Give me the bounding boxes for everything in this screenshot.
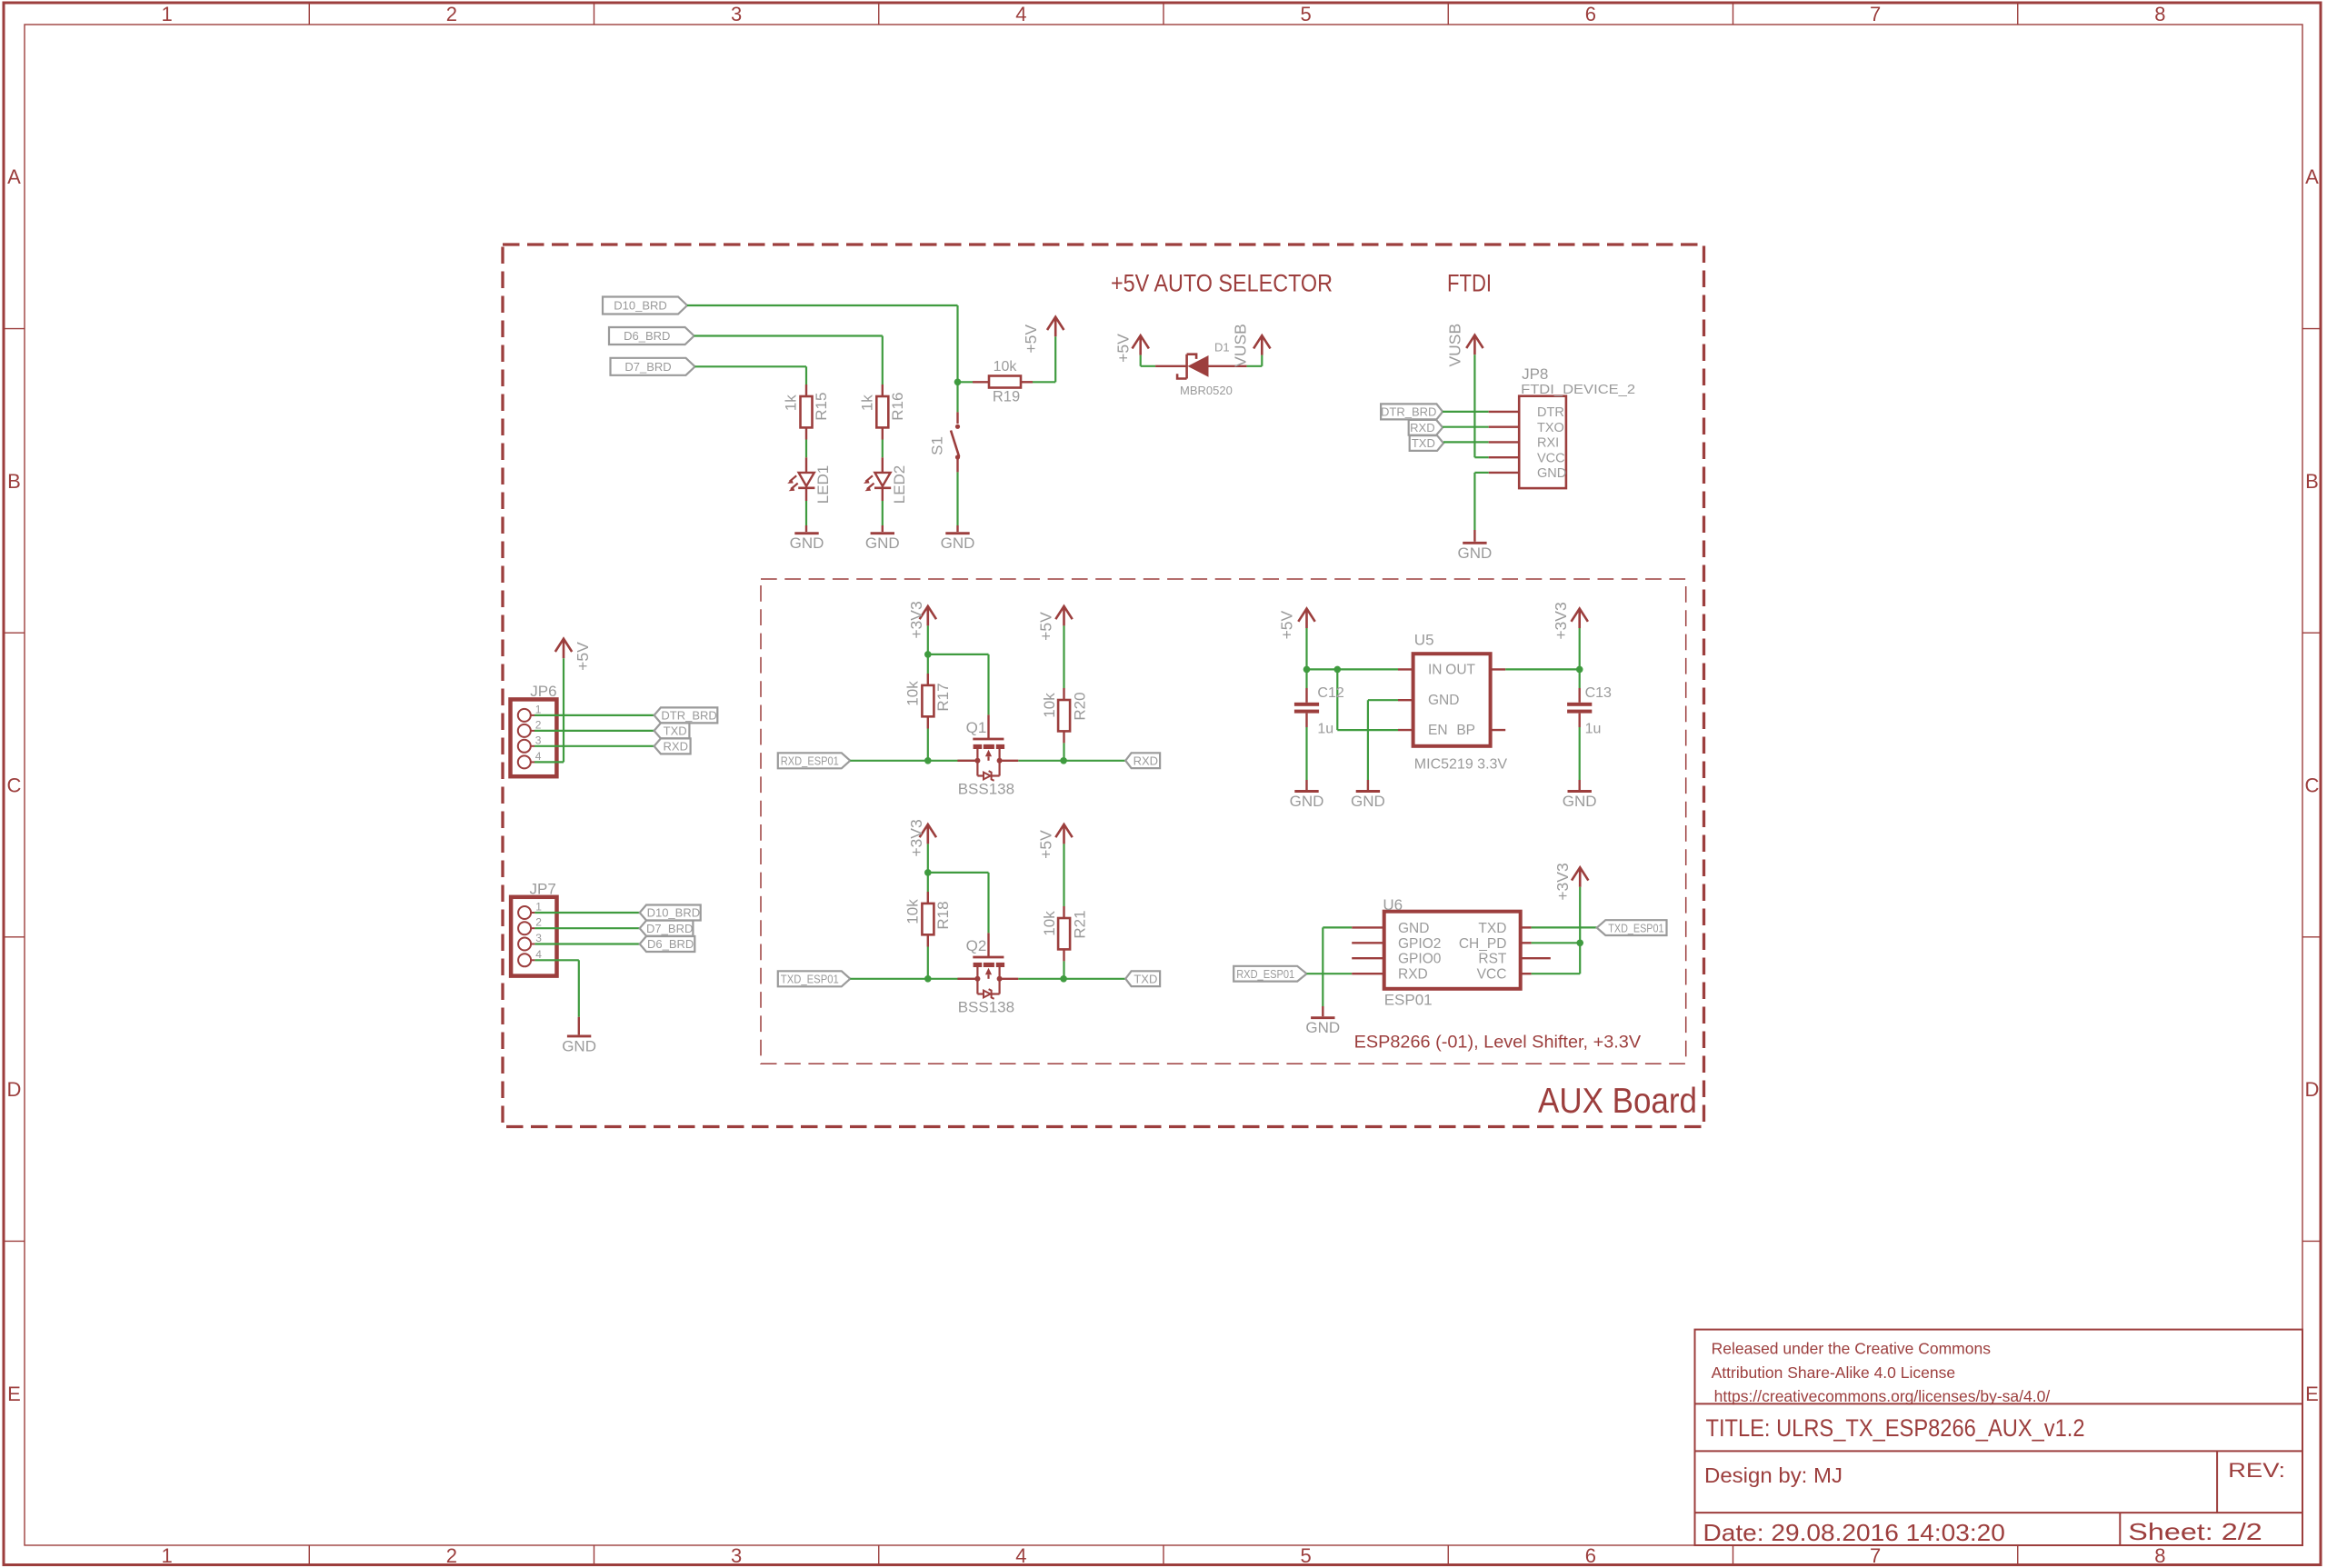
svg-text:RXD_ESP01: RXD_ESP01: [1236, 967, 1294, 981]
net flag DTR_BRD JP6: [654, 707, 718, 723]
svg-text:TXD_ESP01: TXD_ESP01: [1608, 921, 1663, 934]
svg-text:1k: 1k: [858, 394, 875, 411]
svg-text:ESP01: ESP01: [1384, 992, 1433, 1009]
svg-text:RST: RST: [1478, 952, 1507, 967]
wire OUT to +3V3/C13: [1505, 668, 1580, 670]
net flag DTR_BRD: [1381, 404, 1443, 419]
wire VUSB to JP8 VCC: [1473, 355, 1475, 457]
svg-text:VCC: VCC: [1537, 452, 1565, 466]
junction node R17/rail: [924, 757, 932, 764]
svg-text:1: 1: [161, 3, 172, 25]
junction node R18/rail: [924, 975, 932, 983]
svg-text:TXD: TXD: [1412, 436, 1435, 450]
resistor R19 10k: [958, 381, 974, 383]
svg-text:TITLE: ULRS_TX_ESP8266_AUX_v1.: TITLE: ULRS_TX_ESP8266_AUX_v1.2: [1706, 1414, 2085, 1442]
svg-text:C: C: [2305, 774, 2320, 797]
svg-text:S1: S1: [929, 436, 946, 455]
svg-text:A: A: [2305, 165, 2319, 188]
svg-text:1: 1: [161, 1544, 172, 1567]
svg-text:+3V3: +3V3: [1553, 863, 1572, 900]
svg-text:4: 4: [1015, 3, 1026, 25]
wire D6_BRD to R16: [694, 335, 883, 336]
svg-text:EN: EN: [1428, 723, 1448, 738]
svg-text:4: 4: [1015, 1544, 1026, 1567]
svg-text:MIC5219 3.3V: MIC5219 3.3V: [1414, 757, 1508, 773]
junction node C12/IN: [1303, 666, 1311, 674]
svg-text:2: 2: [446, 1544, 457, 1567]
wire D7_BRD to R15: [695, 365, 807, 367]
wire U6 GND to ground: [1323, 926, 1352, 928]
wire D10_BRD to S1 node: [687, 305, 958, 306]
wire LED1 to GND: [805, 501, 807, 525]
svg-text:2: 2: [535, 916, 542, 929]
net flag RXD FTDI: [1409, 420, 1443, 435]
svg-text:GND: GND: [865, 534, 900, 552]
title block outline: [1695, 1330, 2303, 1545]
net flag D10_BRD: [603, 297, 687, 315]
ground GND under C12: [1305, 780, 1307, 790]
svg-text:3: 3: [535, 734, 542, 746]
svg-text:GND: GND: [790, 534, 824, 552]
wire JP7 pin2 to D7_BRD: [534, 927, 639, 929]
svg-text:3: 3: [535, 932, 542, 944]
svg-text:10k: 10k: [1041, 911, 1058, 936]
AUX Board dashed outline: [503, 245, 1704, 1127]
wire S1 to GND: [956, 472, 958, 525]
net flag D6_BRD: [609, 327, 694, 345]
svg-text:2: 2: [535, 718, 542, 731]
svg-text:RXD: RXD: [1410, 421, 1434, 434]
svg-text:BSS138: BSS138: [958, 781, 1014, 798]
svg-text:8: 8: [2154, 3, 2165, 25]
resistor R15 1k: [805, 385, 807, 396]
svg-text:5: 5: [1300, 3, 1311, 25]
wire TXD_ESP01 rail: [850, 978, 977, 980]
junction node gate/R18: [924, 869, 932, 876]
svg-text:1: 1: [535, 901, 542, 914]
ESP8266 inner dashed outline: [761, 579, 1686, 1064]
wire rail to RXD: [1018, 760, 1126, 762]
frame column dividers top band: [308, 3, 310, 25]
svg-text:D10_BRD: D10_BRD: [647, 906, 701, 920]
svg-text:+5V: +5V: [1278, 610, 1296, 639]
svg-text:GND: GND: [1428, 693, 1459, 708]
resistor R21 10k: [1063, 844, 1064, 906]
svg-text:R20: R20: [1072, 692, 1089, 720]
svg-text:GND: GND: [941, 534, 975, 552]
svg-text:AUX Board: AUX Board: [1538, 1082, 1697, 1121]
svg-text:A: A: [7, 165, 21, 188]
svg-text:U5: U5: [1414, 632, 1434, 649]
net flag RXD JP6: [654, 738, 691, 754]
wire RXD_ESP01 to U6: [1307, 973, 1353, 974]
svg-text:DTR_BRD: DTR_BRD: [661, 709, 716, 723]
wire rail to TXD: [1018, 978, 1126, 980]
ground GND under JP8: [1473, 530, 1475, 542]
title block dividers: [1695, 1403, 2303, 1404]
resistor R20 10k: [1063, 625, 1064, 688]
svg-text:JP7: JP7: [530, 881, 556, 898]
wire R20 to rail: [1063, 743, 1064, 760]
svg-text:DTR_BRD: DTR_BRD: [1381, 405, 1436, 419]
svg-text:JP8: JP8: [1522, 365, 1548, 383]
svg-text:E: E: [2305, 1383, 2319, 1405]
svg-text:TXD: TXD: [1134, 972, 1157, 985]
svg-text:GND: GND: [1458, 544, 1493, 562]
frame row dividers left band: [4, 328, 25, 330]
net flag RXD: [1125, 753, 1160, 768]
junction node CH_PD/+3V3: [1576, 940, 1583, 947]
svg-text:4: 4: [535, 750, 542, 763]
svg-text:GPIO0: GPIO0: [1398, 952, 1442, 967]
svg-text:C13: C13: [1585, 685, 1612, 701]
junction node EN/IN: [1334, 666, 1342, 674]
svg-text:C: C: [7, 774, 22, 797]
ground GND under JP7: [578, 1017, 580, 1035]
svg-text:Design by: MJ: Design by: MJ: [1704, 1463, 1843, 1487]
wire +3V3 to R17 and gate: [927, 625, 929, 674]
svg-text:B: B: [2305, 470, 2319, 493]
svg-text:B: B: [7, 470, 21, 493]
svg-text:R17: R17: [934, 683, 952, 711]
svg-text:RXD_ESP01: RXD_ESP01: [781, 754, 839, 768]
wire JP7 pin1 to D10_BRD: [534, 912, 639, 914]
svg-text:REV:: REV:: [2228, 1459, 2285, 1482]
svg-text:Q1: Q1: [966, 719, 987, 736]
svg-text:4: 4: [535, 948, 542, 961]
wire +3V3 to CH_PD and VCC: [1579, 887, 1581, 974]
svg-text:GND: GND: [1563, 793, 1597, 810]
svg-text:TXD: TXD: [664, 724, 687, 738]
wire R15 to LED1: [805, 440, 807, 458]
svg-text:+5V: +5V: [574, 642, 592, 671]
IC U5 MIC5219 3.3V: [1398, 668, 1413, 670]
junction node gate/R17: [924, 651, 932, 658]
svg-text:RXD: RXD: [664, 740, 688, 754]
svg-text:+5V: +5V: [1022, 325, 1040, 354]
supply VUSB selector: [1261, 335, 1263, 355]
ground GND under S1: [956, 525, 958, 532]
svg-text:R21: R21: [1072, 910, 1089, 938]
svg-text:D10_BRD: D10_BRD: [614, 299, 667, 313]
svg-text:RXD: RXD: [1398, 967, 1428, 983]
net flag D7_BRD: [611, 358, 695, 375]
svg-text:D7_BRD: D7_BRD: [646, 922, 693, 935]
svg-text:GPIO2: GPIO2: [1398, 936, 1441, 952]
svg-text:BP: BP: [1456, 723, 1475, 738]
supply +5V selector: [1139, 335, 1142, 355]
svg-text:1k: 1k: [783, 394, 800, 411]
connector JP7: [511, 897, 556, 976]
svg-text:R16: R16: [889, 393, 906, 421]
net flag RXD_ESP01 U6: [1233, 966, 1306, 982]
net flag TXD_ESP01: [778, 971, 851, 986]
svg-text:E: E: [7, 1383, 21, 1405]
svg-text:+3V3: +3V3: [1552, 602, 1570, 639]
svg-text:3: 3: [731, 3, 742, 25]
wire R17 to main rail: [927, 729, 929, 761]
capacitor C12 1u: [1305, 669, 1307, 688]
supply +5V near R21: [1063, 824, 1065, 844]
wire JP6 pin3 to RXD: [534, 745, 654, 747]
svg-text:CH_PD: CH_PD: [1459, 936, 1507, 952]
frame row dividers right band: [2302, 328, 2321, 330]
junction node R21/rail: [1060, 975, 1067, 983]
supply VUSB FTDI: [1473, 335, 1476, 355]
svg-text:GND: GND: [562, 1037, 596, 1054]
svg-text:R19: R19: [993, 389, 1020, 405]
svg-text:IN: IN: [1428, 663, 1443, 678]
svg-text:8: 8: [2154, 1544, 2165, 1567]
svg-text:https://creativecommons.org/li: https://creativecommons.org/licenses/by-…: [1714, 1387, 2051, 1405]
wire +5V to D1: [1140, 355, 1142, 366]
wire R18 to main rail: [927, 947, 929, 979]
wire +5V to U5 IN: [1305, 628, 1307, 669]
supply +5V near U5: [1305, 609, 1308, 629]
connector JP6: [511, 699, 557, 776]
svg-text:GND: GND: [1398, 921, 1429, 936]
capacitor C13 1u: [1579, 669, 1581, 688]
net flag D6_BRD JP7: [640, 936, 695, 952]
svg-text:10k: 10k: [1041, 693, 1058, 718]
svg-text:D6_BRD: D6_BRD: [647, 937, 694, 951]
wire U5 GND to ground: [1368, 699, 1398, 701]
svg-text:GND: GND: [1537, 466, 1566, 481]
svg-text:D: D: [7, 1078, 22, 1101]
svg-text:10k: 10k: [904, 681, 921, 706]
svg-text:+5V: +5V: [1114, 334, 1133, 363]
wire DTR_BRD to JP8: [1443, 411, 1489, 413]
svg-text:3: 3: [731, 1544, 742, 1567]
svg-text:LED1: LED1: [814, 465, 832, 504]
svg-text:OUT: OUT: [1445, 663, 1475, 678]
wire LED2 to GND: [882, 501, 884, 525]
connector JP8 FTDI_DEVICE_2: [1489, 411, 1520, 413]
svg-text:D6_BRD: D6_BRD: [624, 329, 670, 343]
transistor Q1 BSS138: [987, 714, 989, 738]
svg-text:ESP8266 (-01), Level Shifter,: ESP8266 (-01), Level Shifter, +3.3V: [1354, 1033, 1642, 1053]
wire JP7 pin3 to D6_BRD: [534, 943, 639, 944]
svg-text:GND: GND: [1305, 1019, 1340, 1036]
svg-text:GND: GND: [1351, 793, 1385, 810]
svg-text:1: 1: [535, 703, 542, 715]
svg-text:2: 2: [446, 3, 457, 25]
net flag D10_BRD JP7: [640, 905, 701, 921]
svg-text:7: 7: [1870, 3, 1881, 25]
switch S1: [956, 382, 958, 412]
ground GND under LED2: [882, 525, 884, 532]
svg-text:Date: 29.08.2016 14:03:20: Date: 29.08.2016 14:03:20: [1703, 1519, 2005, 1546]
svg-text:U6: U6: [1383, 896, 1403, 914]
wire RXD to JP8: [1443, 426, 1489, 428]
supply +5V JP6: [563, 639, 565, 659]
svg-text:TXD_ESP01: TXD_ESP01: [781, 973, 839, 986]
frame column dividers bottom band: [308, 1545, 310, 1565]
svg-text:MBR0520: MBR0520: [1180, 384, 1233, 397]
ground GND under C13: [1578, 780, 1580, 790]
svg-text:+5V: +5V: [1037, 830, 1055, 859]
supply +5V near R19: [1054, 317, 1057, 337]
wire JP6 pin4 to +5V: [534, 761, 564, 763]
transistor Q2 BSS138: [987, 933, 989, 956]
svg-text:FTDI: FTDI: [1447, 270, 1492, 297]
svg-text:D: D: [2305, 1078, 2320, 1101]
ground GND under U5: [1367, 780, 1369, 790]
junction node OUT/C13: [1576, 666, 1583, 674]
supply +3V3 near C13: [1578, 609, 1581, 629]
wire TXD to JP8: [1443, 441, 1489, 443]
wire D1 to VUSB: [1247, 365, 1263, 367]
wire RXD_ESP01 rail: [850, 760, 977, 762]
svg-text:C12: C12: [1317, 685, 1343, 701]
svg-text:LED2: LED2: [891, 465, 908, 504]
svg-text:Released under the Creative Co: Released under the Creative Commons: [1712, 1340, 1992, 1358]
svg-text:GND: GND: [1290, 793, 1324, 810]
wire JP8 GND to ground: [1474, 472, 1488, 474]
net flag TXD_ESP01 U6: [1597, 920, 1667, 935]
svg-text:R15: R15: [813, 393, 830, 421]
wire C12 to GND: [1305, 727, 1307, 780]
wire CH_PD branch: [1532, 942, 1581, 944]
supply +3V3 near R17: [926, 606, 929, 626]
svg-text:VUSB: VUSB: [1445, 324, 1463, 367]
svg-text:6: 6: [1585, 3, 1596, 25]
supply +3V3 near U6: [1579, 867, 1582, 887]
ground GND under U6: [1322, 1006, 1323, 1016]
net flag TXD FTDI: [1410, 435, 1443, 451]
net flag TXD: [1125, 971, 1160, 986]
svg-text:+5V AUTO SELECTOR: +5V AUTO SELECTOR: [1111, 270, 1333, 297]
svg-text:BSS138: BSS138: [958, 999, 1014, 1016]
svg-text:D7_BRD: D7_BRD: [624, 360, 671, 374]
wire U6 TXD to TXD_ESP01: [1532, 926, 1597, 928]
resistor R16 1k: [882, 385, 884, 396]
svg-text:R18: R18: [934, 901, 952, 929]
svg-text:10k: 10k: [994, 359, 1018, 375]
svg-text:VUSB: VUSB: [1231, 324, 1249, 367]
supply +3V3 near R18: [926, 824, 929, 844]
wire R19 to +5V: [1033, 381, 1055, 383]
svg-text:+3V3: +3V3: [907, 819, 925, 856]
svg-text:JP6: JP6: [530, 683, 556, 700]
wire JP7 pin4 to GND: [534, 959, 578, 961]
svg-text:RXD: RXD: [1134, 754, 1158, 767]
svg-text:1u: 1u: [1317, 722, 1333, 737]
IC U6 ESP01: [1352, 926, 1384, 928]
svg-text:TXO: TXO: [1537, 421, 1564, 435]
svg-text:1u: 1u: [1585, 722, 1602, 737]
svg-text:10k: 10k: [904, 899, 921, 924]
svg-text:VCC: VCC: [1477, 967, 1507, 983]
svg-text:Attribution Share-Alike 4.0 Li: Attribution Share-Alike 4.0 License: [1712, 1363, 1955, 1382]
svg-text:5: 5: [1300, 1544, 1311, 1567]
svg-text:+5V: +5V: [1037, 612, 1055, 641]
net flag D7_BRD JP7: [640, 921, 694, 936]
wire C13 to GND: [1579, 727, 1581, 780]
svg-text:7: 7: [1870, 1544, 1881, 1567]
supply +5V near R20: [1063, 606, 1065, 626]
svg-text:6: 6: [1585, 1544, 1596, 1567]
resistor R17 10k: [927, 674, 929, 685]
wire JP6 pin1 to DTR_BRD: [534, 714, 654, 716]
svg-text:TXD: TXD: [1478, 921, 1506, 936]
net flag RXD_ESP01: [778, 753, 851, 768]
wire EN branch: [1336, 669, 1338, 730]
wire VCC branch: [1532, 973, 1581, 974]
wire +3V3 to R18 and gate: [927, 844, 929, 892]
diode D1 MBR0520: [1155, 365, 1187, 367]
LED LED1: [805, 457, 807, 473]
svg-text:RXI: RXI: [1537, 436, 1559, 451]
svg-text:D1: D1: [1214, 341, 1230, 355]
wire R21 to rail: [1063, 961, 1064, 978]
junction node R20/rail: [1060, 757, 1067, 764]
svg-text:DTR: DTR: [1537, 405, 1564, 420]
net flag TXD JP6: [654, 723, 690, 738]
ground GND under LED1: [805, 525, 807, 532]
svg-text:Sheet: 2/2: Sheet: 2/2: [2128, 1518, 2262, 1545]
LED LED2: [882, 457, 884, 473]
junction node S1/R19/D10_BRD: [954, 379, 962, 386]
wire JP6 pin2 to TXD: [534, 730, 654, 732]
wire R16 to LED2: [882, 440, 884, 458]
svg-text:FTDI_DEVICE_2: FTDI_DEVICE_2: [1521, 382, 1635, 397]
resistor R18 10k: [927, 892, 929, 904]
svg-text:Q2: Q2: [966, 937, 987, 954]
svg-text:+3V3: +3V3: [907, 601, 925, 638]
